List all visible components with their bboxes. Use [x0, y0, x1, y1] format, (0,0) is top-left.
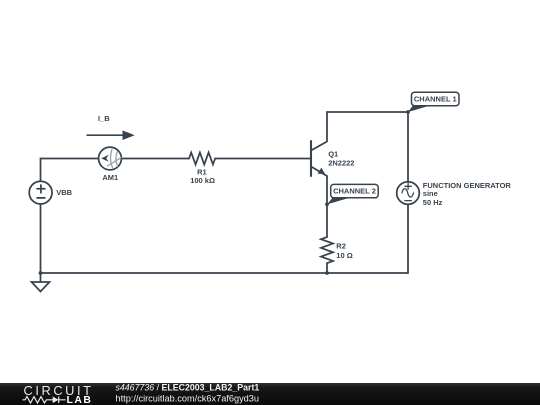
svg-text:R1: R1 [197, 167, 207, 176]
footer bar [0, 382, 540, 405]
flag CHANNEL 2 [327, 184, 378, 204]
wire: bottom rail [41, 272, 409, 274]
current arrow I_B [87, 130, 135, 140]
ammeter AM1 [99, 147, 122, 170]
svg-text:50 Hz: 50 Hz [423, 198, 443, 207]
ground [32, 273, 50, 292]
junction node: channel 2 [325, 203, 329, 207]
wire: VBB top to main horizontal [41, 159, 99, 182]
svg-text:10 Ω: 10 Ω [336, 251, 352, 260]
wire: AM1 to R1 [122, 158, 190, 160]
svg-text:LAB: LAB [67, 395, 93, 405]
junction node: channel 1 [406, 110, 410, 114]
svg-text:100 kΩ: 100 kΩ [190, 176, 215, 185]
svg-text:http://circuitlab.com/ck6x7af6: http://circuitlab.com/ck6x7af6gyd3u [116, 393, 260, 403]
svg-text:R2: R2 [336, 242, 346, 251]
wire: channel1 node down to function generator [407, 112, 409, 182]
logo resistor-diode glyph [23, 397, 66, 404]
resistor R2 [321, 237, 333, 263]
wire: collector top horizontal [327, 111, 408, 113]
wire: R1 to Q1 base [215, 158, 310, 160]
junction node: ground rail [39, 271, 43, 275]
svg-text:AM1: AM1 [102, 173, 118, 182]
svg-text:VBB: VBB [56, 188, 72, 197]
svg-text:s4467736 / ELEC2003_LAB2_Part1: s4467736 / ELEC2003_LAB2_Part1 [116, 382, 260, 392]
wire: function generator bottom [407, 204, 409, 273]
function generator V1 [397, 182, 420, 205]
svg-text:CHANNEL 2: CHANNEL 2 [333, 187, 376, 196]
voltage source VBB [29, 181, 52, 204]
svg-text:I_B: I_B [98, 114, 110, 123]
svg-text:2N2222: 2N2222 [328, 158, 354, 167]
svg-text:Q1: Q1 [328, 150, 338, 159]
wire: R2 bottom [326, 263, 328, 273]
flag CHANNEL 1 [408, 92, 459, 112]
transistor Q1 [311, 112, 327, 237]
junction node: R2 bottom rail [325, 271, 329, 275]
resistor R1 [189, 153, 215, 165]
svg-text:CHANNEL 1: CHANNEL 1 [414, 95, 457, 104]
wire: VBB bottom [40, 204, 42, 273]
